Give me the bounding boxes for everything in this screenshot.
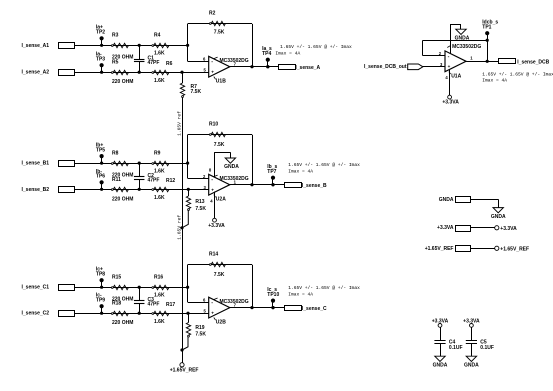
svg-text:7.5K: 7.5K	[214, 30, 225, 36]
svg-text:1.65V +/- 1.65V @ +/- Imax: 1.65V +/- 1.65V @ +/- Imax	[288, 162, 360, 168]
svg-text:TP7: TP7	[267, 169, 276, 175]
svg-text:+: +	[448, 64, 451, 69]
svg-text:-: -	[448, 54, 450, 60]
svg-text:TP5: TP5	[96, 147, 105, 153]
svg-text:R19: R19	[195, 325, 204, 331]
svg-text:1.65V +/- 1.65V @ +/- Imax: 1.65V +/- 1.65V @ +/- Imax	[482, 71, 553, 77]
svg-text:U1B: U1B	[216, 79, 226, 85]
svg-text:+3.3VA: +3.3VA	[500, 226, 517, 232]
svg-text:I_sense_B1: I_sense_B1	[22, 161, 50, 167]
svg-text:Imax = 4A: Imax = 4A	[288, 291, 313, 297]
svg-text:R4: R4	[154, 33, 161, 39]
svg-text:R8: R8	[112, 150, 119, 156]
svg-text:R12: R12	[166, 178, 175, 184]
svg-text:1.65V +/- 1.65V @ +/- Imax: 1.65V +/- 1.65V @ +/- Imax	[288, 285, 360, 291]
svg-text:GNDA: GNDA	[224, 164, 239, 170]
svg-text:TP8: TP8	[96, 272, 105, 278]
svg-text:R2: R2	[209, 11, 216, 17]
svg-text:MC33502DG: MC33502DG	[220, 176, 249, 182]
svg-text:7.5K: 7.5K	[191, 89, 202, 95]
svg-text:GNDA: GNDA	[433, 363, 448, 369]
svg-text:TP6: TP6	[96, 174, 105, 180]
svg-text:MC33502DG: MC33502DG	[220, 58, 249, 64]
svg-text:U2A: U2A	[216, 196, 226, 202]
svg-text:I_sense_DCB: I_sense_DCB	[517, 60, 549, 66]
svg-text:TP2: TP2	[96, 30, 105, 36]
svg-text:TP9: TP9	[96, 298, 105, 304]
svg-text:TP1: TP1	[482, 25, 491, 31]
svg-text:I_sense_A: I_sense_A	[295, 65, 320, 71]
svg-text:1.65V ref: 1.65V ref	[176, 111, 182, 136]
svg-text:220 OHM: 220 OHM	[112, 196, 133, 202]
svg-text:220 OHM: 220 OHM	[112, 320, 133, 326]
svg-text:GNDA: GNDA	[464, 363, 479, 369]
svg-text:Imax = 4A: Imax = 4A	[275, 50, 300, 56]
svg-text:GNDA: GNDA	[439, 197, 454, 203]
svg-text:+1.65V_REF: +1.65V_REF	[170, 368, 199, 374]
svg-text:47PF: 47PF	[148, 177, 160, 183]
svg-text:R9: R9	[154, 150, 161, 156]
svg-text:I_sense_C1: I_sense_C1	[22, 285, 50, 291]
svg-text:U1A: U1A	[451, 73, 461, 79]
svg-text:R17: R17	[166, 302, 175, 308]
svg-text:-: -	[211, 177, 213, 183]
svg-text:I_sense_C2: I_sense_C2	[22, 311, 50, 317]
svg-text:+: +	[211, 70, 214, 75]
svg-text:R5: R5	[112, 60, 119, 66]
svg-text:TP10: TP10	[267, 292, 279, 298]
svg-text:1.6K: 1.6K	[154, 292, 165, 298]
svg-text:R13: R13	[195, 199, 204, 205]
svg-text:0.1UF: 0.1UF	[480, 345, 494, 351]
svg-text:I_sense_B: I_sense_B	[302, 183, 327, 189]
svg-text:-: -	[211, 59, 213, 65]
svg-text:+: +	[211, 310, 214, 315]
svg-text:TP4: TP4	[262, 51, 271, 57]
svg-text:R10: R10	[209, 122, 218, 128]
svg-text:1.6K: 1.6K	[154, 195, 165, 201]
svg-text:1.65V +/- 1.65V @ +/- Imax: 1.65V +/- 1.65V @ +/- Imax	[280, 44, 352, 50]
svg-text:R3: R3	[112, 33, 119, 39]
svg-text:+3.3VA: +3.3VA	[437, 225, 454, 231]
svg-text:MC33502DG: MC33502DG	[452, 44, 481, 50]
svg-text:I_sense_C: I_sense_C	[302, 306, 327, 312]
svg-text:7.5K: 7.5K	[214, 272, 225, 278]
svg-text:R11: R11	[112, 177, 121, 183]
svg-text:+1.65V_REF: +1.65V_REF	[425, 246, 454, 252]
svg-text:+3.3VA: +3.3VA	[208, 223, 225, 229]
svg-text:MC33502DG: MC33502DG	[220, 299, 249, 305]
svg-text:1.6K: 1.6K	[154, 51, 165, 57]
svg-text:U2B: U2B	[216, 319, 226, 325]
svg-text:R18: R18	[112, 301, 121, 307]
svg-text:I_sense_A2: I_sense_A2	[22, 70, 50, 76]
svg-text:220 OHM: 220 OHM	[112, 79, 133, 85]
svg-text:+3.3VA: +3.3VA	[442, 99, 459, 105]
svg-text:TP3: TP3	[96, 57, 105, 63]
svg-text:47PF: 47PF	[148, 301, 160, 307]
svg-text:1.6K: 1.6K	[154, 319, 165, 325]
svg-text:7.5K: 7.5K	[195, 331, 206, 337]
svg-text:7.5K: 7.5K	[195, 206, 206, 212]
svg-text:R16: R16	[154, 274, 163, 280]
svg-text:7.5K: 7.5K	[214, 142, 225, 148]
svg-text:R14: R14	[209, 252, 218, 258]
svg-text:Imax = 4A: Imax = 4A	[288, 168, 313, 174]
svg-text:+: +	[211, 188, 214, 193]
svg-text:I_sense_B2: I_sense_B2	[22, 187, 50, 193]
svg-text:R15: R15	[112, 274, 121, 280]
svg-text:-: -	[211, 300, 213, 306]
svg-text:R6: R6	[166, 61, 173, 67]
svg-text:+1.65V_REF: +1.65V_REF	[500, 246, 529, 252]
svg-text:GNDA: GNDA	[455, 35, 470, 41]
svg-text:1.6K: 1.6K	[154, 78, 165, 84]
svg-text:47PF: 47PF	[148, 60, 160, 66]
svg-text:GNDA: GNDA	[491, 214, 506, 220]
svg-text:I_sense_A1: I_sense_A1	[22, 43, 50, 49]
svg-text:I_sense_DCB_out: I_sense_DCB_out	[364, 64, 407, 70]
svg-text:Imax = 4A: Imax = 4A	[482, 77, 507, 83]
svg-text:0.1UF: 0.1UF	[449, 345, 463, 351]
svg-text:1.6K: 1.6K	[154, 168, 165, 174]
